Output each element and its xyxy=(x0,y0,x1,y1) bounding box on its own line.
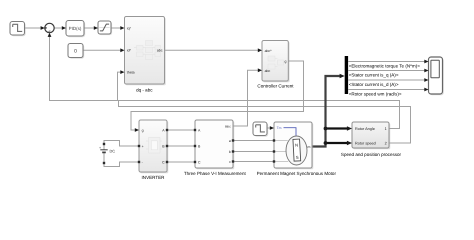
svg-text:Permanent Magnet Synchronous M: Permanent Magnet Synchronous Motor xyxy=(257,171,337,176)
arrowhead into bus selector xyxy=(340,74,345,79)
wire DC plus to inverter plus xyxy=(104,141,139,147)
arrowhead into id* xyxy=(120,48,124,52)
port square measurement C xyxy=(194,161,196,163)
block Three Phase V-I Measurement xyxy=(184,120,247,176)
svg-text:S: S xyxy=(296,155,299,160)
svg-text:<Stator current is_d (A)>: <Stator current is_d (A)> xyxy=(349,82,399,87)
arrowhead into saturation xyxy=(94,26,98,30)
arrowhead into Tm xyxy=(270,126,274,130)
wire DC minus to inverter minus xyxy=(104,162,139,167)
sum junction xyxy=(45,23,54,32)
wire constant 0 to dq-abc id* xyxy=(83,49,121,51)
svg-text:b: b xyxy=(229,150,231,154)
svg-text:<Rotor speed wm (rad/s)>: <Rotor speed wm (rad/s)> xyxy=(349,91,402,96)
port square measurement B xyxy=(194,145,196,147)
arrowhead into scope 1 xyxy=(424,60,428,64)
port square motor C xyxy=(273,160,275,162)
wire sum to PID xyxy=(54,27,62,29)
svg-text:<Electromagnetic torque Te (N*: <Electromagnetic torque Te (N*m)> xyxy=(349,63,421,68)
arrowhead into PID xyxy=(62,26,66,30)
wire Iabc to controller abc xyxy=(233,70,258,126)
arrowhead into scope 2 xyxy=(424,69,428,73)
step source Step1 xyxy=(10,22,26,37)
port square measurement a xyxy=(232,139,234,141)
svg-text:g: g xyxy=(142,129,144,133)
wire rotor speed feedback to sum xyxy=(50,37,411,144)
port square motor B xyxy=(273,150,275,152)
wire bus signal 4 to scope xyxy=(348,89,424,91)
arrowhead into sum from below xyxy=(48,33,52,37)
svg-text:id*: id* xyxy=(127,49,132,53)
wire step1 to sum xyxy=(25,27,42,29)
wire measurement a to motor A xyxy=(233,140,274,142)
bus selector xyxy=(345,56,348,94)
svg-text:N: N xyxy=(295,143,298,148)
port square inverter plus xyxy=(138,145,140,147)
svg-text:m: m xyxy=(307,145,310,149)
wire bus signal 3 to scope xyxy=(348,79,424,81)
svg-text:PID(s): PID(s) xyxy=(69,26,82,31)
svg-text:abc: abc xyxy=(265,69,271,73)
wire controller g to inverter g xyxy=(131,61,304,130)
junction dot 1 xyxy=(324,127,328,131)
bus branch to processor input 1 xyxy=(326,127,348,129)
wire inverter A to measurement A xyxy=(167,129,195,131)
wire dq-abc abc to controller abc* xyxy=(165,49,259,51)
port square inverter B xyxy=(166,145,168,147)
bus wire motor m to bus selector xyxy=(312,76,340,147)
wire inverter C to measurement C xyxy=(167,161,195,163)
svg-text:Three Phase V-I Measurement: Three Phase V-I Measurement xyxy=(184,171,247,176)
junction dot 2 xyxy=(324,141,328,145)
block Permanent Magnet Synchronous Motor xyxy=(257,122,337,176)
arrowhead into processor input 2 xyxy=(347,141,352,146)
port square measurement A xyxy=(194,129,196,131)
svg-text:Controller Current: Controller Current xyxy=(257,83,294,88)
svg-text:Tm: Tm xyxy=(277,126,282,130)
step source Step2 xyxy=(253,122,268,137)
PID controller xyxy=(66,21,85,38)
svg-text:dq - abc: dq - abc xyxy=(136,88,153,93)
svg-text:<Stator current is_q (A)>: <Stator current is_q (A)> xyxy=(349,73,399,78)
svg-text:0: 0 xyxy=(74,49,77,55)
arrowhead into inverter g xyxy=(135,128,139,132)
arrowhead into sum xyxy=(41,26,45,30)
port square inverter C xyxy=(166,161,168,163)
wire saturation to dq-abc iq* xyxy=(111,27,121,29)
port square motor A xyxy=(273,139,275,141)
wire bus signal 2 to scope xyxy=(348,70,424,72)
svg-text:theta: theta xyxy=(127,71,135,75)
saturation block xyxy=(98,21,112,35)
arrowhead into scope 3 xyxy=(424,78,428,82)
wire PID to saturation xyxy=(84,27,94,29)
wire rotor angle feedback to theta xyxy=(118,72,400,128)
svg-text:abc*: abc* xyxy=(265,49,273,53)
arrowhead into processor input 1 xyxy=(347,126,352,131)
wire measurement b to motor B xyxy=(233,151,274,153)
svg-text:c: c xyxy=(229,160,231,164)
svg-text:Speed and position processor: Speed and position processor xyxy=(341,152,402,157)
subsystem Speed and position processor xyxy=(341,122,402,157)
svg-text:INVERTER: INVERTER xyxy=(142,175,166,180)
svg-text:Rotor speed: Rotor speed xyxy=(355,141,376,145)
svg-text:iq*: iq* xyxy=(127,26,132,30)
svg-text:Rotor Angle: Rotor Angle xyxy=(355,127,375,131)
DC voltage source xyxy=(99,143,115,164)
svg-text:2: 2 xyxy=(385,141,387,145)
svg-text:abc: abc xyxy=(157,49,163,53)
arrowhead into abc* xyxy=(258,48,262,52)
subsystem dq - abc xyxy=(125,17,166,93)
subsystem INVERTER xyxy=(139,120,168,180)
arrowhead into theta xyxy=(120,70,124,74)
svg-text:+: + xyxy=(142,145,144,149)
svg-text:g: g xyxy=(285,60,287,64)
subsystem Controller Current xyxy=(257,41,294,89)
arrowhead into iq* xyxy=(120,26,124,30)
wire inverter B to measurement B xyxy=(167,145,195,147)
wire bus signal 1 to scope xyxy=(348,61,424,63)
bus branch to processor input 2 xyxy=(326,142,348,144)
wire measurement c to motor C xyxy=(233,161,274,163)
arrowhead into abc xyxy=(258,68,262,72)
port square inverter A xyxy=(166,129,168,131)
constant 0 xyxy=(68,44,84,59)
port square measurement b xyxy=(232,150,234,152)
svg-text:1: 1 xyxy=(385,127,387,131)
svg-text:+: + xyxy=(99,146,101,150)
svg-text:DC: DC xyxy=(110,149,116,154)
svg-text:Iabc: Iabc xyxy=(225,125,231,129)
scope xyxy=(429,57,444,95)
svg-text:a: a xyxy=(229,139,231,143)
arrowhead into scope 4 xyxy=(424,88,428,92)
port square measurement c xyxy=(232,160,234,162)
port square inverter minus xyxy=(138,161,140,163)
wire step2 to motor Tm xyxy=(267,127,270,129)
